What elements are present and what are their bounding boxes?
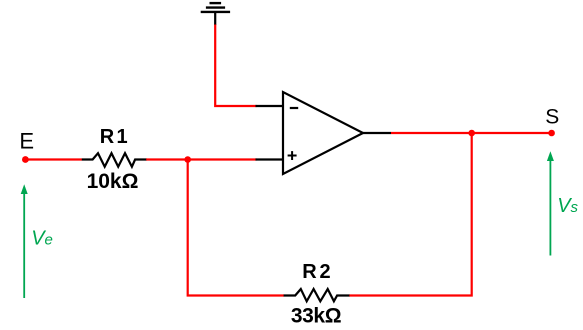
wire E to R1 (red) [25,158,82,160]
ground [201,3,230,25]
wire inverting input stub (black) [256,105,284,107]
wire op-amp output stub (black) [362,132,391,134]
junction node B (feedback tap) [468,130,475,137]
resistor R2 [284,289,350,301]
node S terminal dot [548,130,555,137]
wire ground to inverting input (red) [215,25,256,107]
arrow Vs [547,151,554,255]
svg-text:R2: R2 [302,261,330,283]
junction node A [184,156,191,163]
svg-text:E: E [19,129,34,154]
wire non-inverting input stub (black) [256,158,284,160]
wire feedback node A down and along bottom (red) [188,160,284,296]
svg-text:Vs: Vs [557,195,578,217]
svg-text:Ve: Ve [31,228,53,250]
svg-text:S: S [545,106,559,129]
svg-text:R1: R1 [100,126,128,148]
node E terminal dot [22,156,29,163]
wire feedback bottom to node B (red) [349,133,471,296]
svg-text:33kΩ: 33kΩ [291,305,341,328]
svg-text:10kΩ: 10kΩ [87,170,139,193]
op-amp U1 [283,92,363,174]
resistor R1 [82,153,147,167]
wire R1 to node A (red) [146,158,256,160]
source arrow Ve [21,184,28,298]
wire output to S (red) [391,132,552,134]
